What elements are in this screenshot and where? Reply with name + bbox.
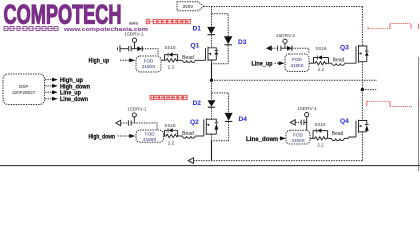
svg-text:2.2: 2.2 bbox=[317, 142, 324, 147]
wire D2 to Q2 drain bbox=[211, 108, 213, 120]
resistor R3 2.2 bbox=[165, 134, 179, 137]
resistor R1 2.2 bbox=[165, 59, 179, 62]
svg-text:SS16: SS16 bbox=[315, 46, 327, 51]
diode bootstrap D5 bbox=[137, 46, 142, 51]
wire bbox=[329, 62, 332, 64]
svg-text:Line_down: Line_down bbox=[246, 136, 278, 143]
svg-text:15DRV-2: 15DRV-2 bbox=[276, 33, 296, 39]
svg-text:FOD: FOD bbox=[144, 58, 154, 63]
wire bbox=[178, 135, 183, 137]
svg-text:FOD: FOD bbox=[292, 57, 302, 62]
battery C (bootstrap supply) bbox=[117, 47, 119, 50]
wire branch to D4 bbox=[212, 93, 229, 113]
terminal circle 15DRV-2 bbox=[283, 39, 287, 43]
transistor Q3 bbox=[356, 45, 367, 63]
wire to Q4 gate bbox=[344, 137, 356, 138]
net flag 250V bbox=[177, 2, 204, 11]
arrow supply left open bbox=[116, 120, 121, 125]
diode bootstrap D7 bbox=[287, 46, 292, 51]
DSP output wire Line_down bbox=[45, 98, 52, 100]
svg-text:Bead: Bead bbox=[333, 58, 345, 64]
transistor Q2 bbox=[204, 118, 217, 136]
DSP output wire High_up bbox=[45, 79, 52, 81]
diode D9 SS16 bypass bbox=[165, 130, 178, 136]
svg-text:15DRV-1: 15DRV-1 bbox=[127, 106, 147, 112]
svg-text:2.2: 2.2 bbox=[168, 64, 175, 69]
wire D4 to Q2 source node bbox=[212, 122, 229, 141]
wire bbox=[281, 47, 287, 49]
svg-text:250V: 250V bbox=[183, 4, 195, 9]
svg-text:SS16: SS16 bbox=[164, 123, 176, 128]
red waveform bottom (PWM complement) bbox=[367, 101, 412, 106]
terminal circle bbox=[132, 113, 136, 117]
svg-text:Line_up: Line_up bbox=[252, 60, 273, 67]
capacitor low side left bbox=[127, 120, 129, 125]
terminal circle bbox=[305, 113, 309, 117]
arrow supply left (15V in) bbox=[266, 45, 272, 51]
wire bbox=[132, 48, 138, 50]
svg-text:FOD: FOD bbox=[293, 132, 303, 137]
wire Q1 source down bbox=[211, 60, 213, 64]
wire arrow into FOD3 bbox=[118, 135, 130, 137]
svg-text:15DRV-1: 15DRV-1 bbox=[124, 31, 144, 37]
svg-text:D4: D4 bbox=[239, 116, 248, 123]
wire to FOD1 top bbox=[142, 49, 158, 56]
wire to FOD3 top bbox=[131, 123, 157, 130]
red waveform edge ticks bbox=[418, 24, 420, 107]
wire Q3 source down bbox=[361, 62, 363, 90]
optocoupler U4 FOD 3180S bbox=[286, 130, 310, 144]
wire to FOD2 top bbox=[292, 48, 309, 54]
svg-text:DSP: DSP bbox=[19, 84, 28, 89]
terminal circle 15DRV-1 bbox=[132, 38, 136, 42]
wire FOD1 out bbox=[161, 59, 165, 61]
svg-text:15DRV-1: 15DRV-1 bbox=[297, 106, 317, 112]
diode D10 SS16 bypass bbox=[313, 131, 328, 139]
transistor Q4 bbox=[356, 120, 367, 137]
wire bbox=[328, 137, 332, 139]
wire Q4 source down bbox=[361, 132, 363, 161]
red annotation bottom (chinese) bbox=[150, 95, 187, 99]
svg-text:High_up: High_up bbox=[89, 58, 110, 65]
diode D1 bbox=[207, 27, 215, 34]
diode D6 SS16 bypass bbox=[165, 55, 178, 61]
junction node right midpoint bbox=[361, 88, 364, 91]
svg-text:Bead: Bead bbox=[332, 131, 344, 137]
capacitor bootstrap bbox=[128, 46, 130, 51]
svg-text:D3: D3 bbox=[238, 39, 247, 46]
DSP U5 block bbox=[3, 74, 45, 105]
svg-text:High_down: High_down bbox=[89, 133, 116, 140]
wire to FOD4 top bbox=[304, 117, 307, 131]
svg-text:SS16: SS16 bbox=[164, 45, 176, 50]
resistor R2 2.2 bbox=[314, 62, 329, 65]
diode D4 bbox=[225, 113, 233, 121]
wire right leg upper bbox=[361, 7, 363, 46]
svg-text:3180S: 3180S bbox=[291, 138, 304, 143]
red waveform top (PWM) bbox=[368, 24, 411, 29]
diode D2 bbox=[208, 100, 216, 107]
wire D2 top bbox=[211, 80, 213, 100]
wire Q2 source down bbox=[211, 134, 213, 141]
svg-text:Q3: Q3 bbox=[340, 45, 349, 52]
svg-text:3180S: 3180S bbox=[290, 63, 303, 68]
capacitor bootstrap 2 bbox=[277, 46, 279, 51]
wire midline B bbox=[362, 89, 377, 91]
wire bbox=[121, 48, 129, 50]
wire arrow into FOD4 bbox=[280, 137, 281, 139]
wire midline A bbox=[212, 79, 378, 81]
wire Q4 drain up to node bbox=[361, 90, 363, 121]
optocoupler U1 FOD 3180S bbox=[136, 56, 161, 72]
page border right bbox=[418, 57, 420, 171]
svg-text:3180S: 3180S bbox=[142, 64, 155, 69]
logo subtitle chinese blocks bbox=[4, 27, 58, 31]
diode D3 bbox=[224, 36, 232, 44]
wire top bus 250V bbox=[204, 6, 363, 8]
diode D8 SS16 bypass bbox=[314, 58, 329, 64]
svg-text:asia: asia bbox=[129, 21, 138, 26]
DSP output wire High_down bbox=[45, 85, 52, 87]
wire branch to D3 bbox=[212, 14, 229, 37]
transistor Q1 bbox=[206, 47, 217, 61]
optocoupler U3 FOD 3180S bbox=[136, 130, 164, 142]
wire FOD3 out bbox=[164, 135, 165, 137]
svg-text:320F28027: 320F28027 bbox=[12, 90, 36, 95]
wire FOD2 out bbox=[309, 62, 314, 64]
wire arrow into FOD1 bbox=[120, 59, 129, 61]
wire bbox=[178, 59, 183, 61]
svg-text:D1: D1 bbox=[193, 26, 202, 33]
red annotation top (chinese) bbox=[146, 19, 190, 23]
wire bottom bus bbox=[194, 160, 363, 162]
DSP output wire Line_up bbox=[45, 91, 52, 93]
svg-text:D2: D2 bbox=[193, 100, 202, 107]
svg-text:COMPOTECH: COMPOTECH bbox=[4, 0, 122, 30]
wire D3 to Q1 source node bbox=[212, 45, 229, 64]
page border bottom bbox=[0, 165, 420, 167]
wire D1 top bbox=[211, 6, 213, 27]
junction node left midpoint bbox=[210, 79, 213, 82]
svg-text:Bead: Bead bbox=[182, 55, 194, 61]
arrow bottom bus left open bbox=[188, 158, 193, 164]
svg-text:2.2: 2.2 bbox=[318, 67, 325, 72]
wire to Q1 gate bbox=[195, 59, 205, 61]
svg-text:Q4: Q4 bbox=[340, 118, 349, 125]
optocoupler U2 FOD 3180S bbox=[285, 54, 309, 72]
wire FOD4 out bbox=[310, 137, 313, 139]
wire to Q3 gate bbox=[345, 62, 357, 63]
capacitor low side right bbox=[300, 120, 302, 125]
wire to Q2 gate bbox=[195, 135, 204, 137]
svg-text:2.2: 2.2 bbox=[168, 140, 175, 145]
arrow supply left open bbox=[290, 120, 295, 125]
wire arrow into FOD2 bbox=[275, 62, 280, 64]
wire D1 to Q1 drain bbox=[211, 35, 213, 48]
resistor R4 2.2 bbox=[313, 137, 328, 140]
svg-text:Bead: Bead bbox=[182, 131, 194, 137]
svg-text:3180S: 3180S bbox=[143, 137, 156, 142]
svg-text:SS16: SS16 bbox=[314, 122, 326, 127]
svg-text:Q2: Q2 bbox=[190, 119, 199, 126]
svg-text:Q1: Q1 bbox=[191, 43, 200, 50]
svg-text:Line_down: Line_down bbox=[60, 96, 88, 103]
